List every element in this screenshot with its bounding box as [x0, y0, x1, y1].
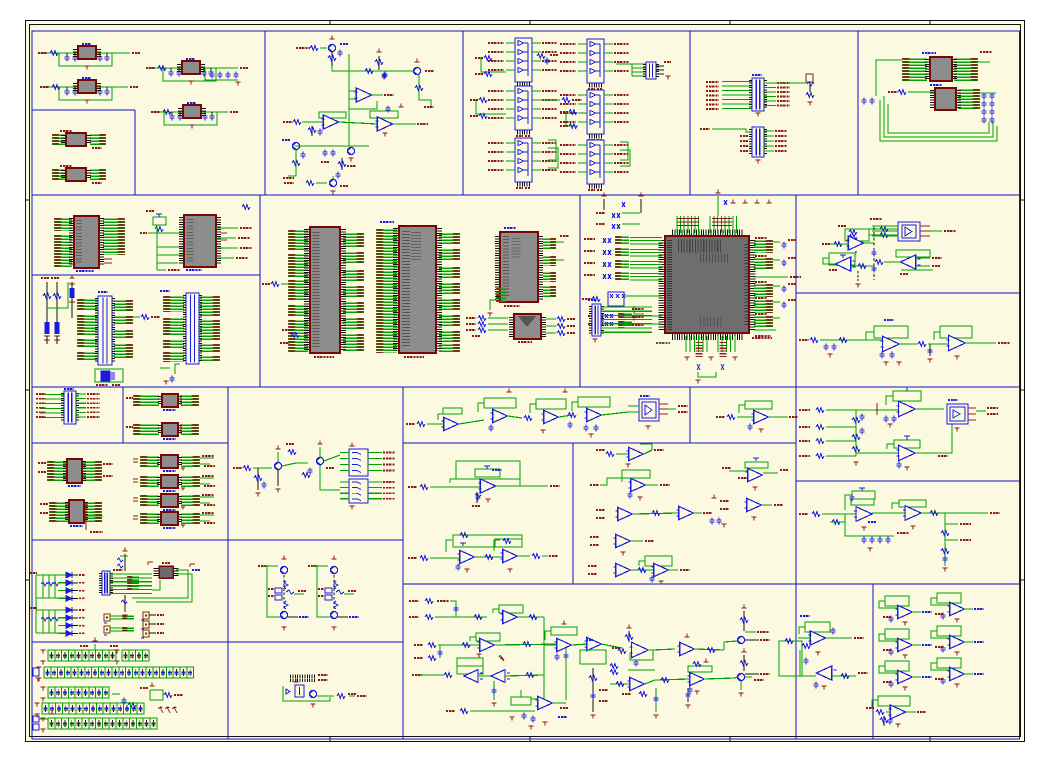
output divider string [941, 513, 971, 571]
lower op-amp V5 cluster [446, 690, 568, 729]
op-amp chain stage2 [478, 389, 522, 432]
comparator U24 [870, 219, 956, 241]
IC U30 [38, 459, 113, 486]
partition line [572, 443, 574, 584]
op-amp V2 [414, 633, 569, 700]
resistor RC net [537, 54, 558, 65]
cap row [845, 530, 909, 551]
input networks [799, 408, 865, 466]
connector J2 [706, 75, 790, 116]
op-amp U27A [852, 320, 918, 365]
output transistor P1 [724, 605, 770, 650]
partition line [796, 480, 1020, 482]
small IC U6 [56, 166, 103, 183]
IC U31 [40, 500, 103, 532]
op-amp pair U46 [588, 556, 690, 584]
partition line [796, 292, 1020, 294]
FPGA U23 body [662, 233, 772, 338]
capacitor bank row2 [33, 667, 194, 681]
op-amp U43 [590, 470, 670, 500]
op-amp U48 [720, 498, 783, 520]
net labels col2 row2 [560, 110, 578, 129]
feedback loop to W2 [779, 639, 802, 676]
op-amp cell W6 [931, 626, 984, 655]
pullup resistor and jumper [776, 74, 814, 105]
crystal Y1 [95, 369, 123, 385]
mixer input nets [409, 599, 487, 620]
gate outputs elbow wires [548, 140, 630, 168]
ground stub [855, 271, 860, 287]
small IC U29 [126, 423, 195, 439]
connector J3 [700, 127, 787, 163]
IC U33 [133, 475, 215, 491]
supervisor U52 [132, 562, 200, 602]
filter chain input [799, 338, 852, 358]
input network [233, 466, 272, 497]
transistor Q6 [274, 444, 308, 492]
resistor divider [375, 49, 387, 80]
partition line [259, 195, 261, 387]
resistor net lower left [280, 330, 299, 343]
feedback network with resistors [838, 226, 898, 241]
regulator circuit U2 [40, 78, 138, 103]
jumper sockets [104, 612, 164, 638]
frame zone tick marks [329, 21, 331, 25]
driver array U36 [340, 443, 395, 476]
net labels with series resistors col1 [475, 56, 506, 77]
quad gate IC U9 [488, 38, 557, 88]
comparator U38 [628, 396, 688, 429]
tall IC U19 [292, 227, 361, 357]
connector J1 [616, 62, 671, 79]
op-amp V8 [610, 625, 675, 675]
partition line [462, 31, 464, 195]
op-amp U47 [722, 458, 788, 490]
op-amp cell W8 [931, 658, 984, 687]
reset RC network [117, 548, 128, 619]
partition line [32, 539, 403, 541]
op-amp V6 [544, 621, 588, 661]
IC U16 with bypass network [888, 85, 976, 110]
op-amp V9 [678, 634, 724, 656]
comparator U50 [947, 400, 998, 431]
IC U15 with bypass network [890, 52, 992, 81]
op-amp U8A [370, 104, 428, 137]
capacitor on rail [383, 72, 388, 79]
capacitor bank row1 [40, 638, 149, 665]
op-amp U7B [283, 112, 377, 136]
op-amp cell W9 [866, 696, 926, 727]
op-amp U42 [596, 444, 664, 467]
dashed net line [872, 227, 877, 280]
tall IC U20 [380, 222, 457, 357]
partition line [872, 584, 874, 739]
op-amp U25B left-facing [823, 253, 874, 271]
RC filter strings [41, 278, 68, 344]
diode protection arrays [30, 572, 85, 636]
IC U21 flash [487, 228, 569, 316]
wire main rail [332, 66, 414, 71]
op-amp V10 [610, 677, 655, 696]
capacitor bank row4 [34, 703, 177, 717]
transistor Q7 [302, 441, 340, 490]
transistor Q4 [321, 147, 355, 162]
op-amp U26 left-facing [875, 250, 942, 274]
connector J6 [36, 389, 100, 424]
op-amp cell W5 [879, 629, 932, 658]
lower rail wire [295, 145, 369, 147]
output transistor P2 [735, 649, 770, 697]
partition line [32, 109, 135, 111]
op-amp cell W4 [931, 593, 984, 622]
transistor Q3 [282, 140, 306, 178]
op-amp U49B [856, 424, 952, 470]
op-amp U7A [349, 88, 394, 113]
IC U34 [133, 494, 215, 510]
bypass capacitors right [980, 93, 996, 124]
partition line [32, 442, 228, 444]
capacitor bank right of regulator U3 [205, 68, 241, 85]
quad gate IC U11 [488, 138, 557, 188]
resistor array RP1 [608, 292, 624, 306]
IC U17 memory [58, 216, 122, 271]
partition line [122, 387, 124, 443]
transistor Q5 stage [284, 176, 348, 194]
IC U35 [133, 512, 215, 528]
input net with resistor [262, 282, 288, 287]
FPGA bottom pins [684, 336, 737, 383]
regulator circuit U4 [151, 103, 238, 128]
small IC U5 [56, 131, 103, 148]
quad gate IC U13 [560, 90, 629, 140]
ground chain right of V7 [589, 668, 608, 718]
partition line [579, 195, 581, 387]
transistor string Q8/Q9 [258, 556, 309, 631]
op-amp V11 [655, 659, 735, 695]
capacitor bank row5 [33, 711, 157, 733]
FPGA left resistor arrays [582, 193, 662, 328]
wire with resistor to label [532, 98, 582, 103]
op-amp pair U41 [408, 533, 558, 573]
FPGA right pad groups [656, 238, 801, 343]
regulator circuit U3 [146, 59, 248, 84]
partition line [32, 386, 1020, 388]
op-amp W2 left-facing [800, 650, 868, 689]
driver array U37 [340, 479, 395, 509]
op-amp chain stage3 [524, 389, 573, 434]
op-amp U51A [799, 488, 876, 530]
capacitor bank row3 [40, 683, 183, 708]
connector J5 [160, 291, 216, 384]
programming header J7 [101, 570, 153, 595]
op-amp V4 left-facing [491, 655, 544, 706]
FPGA top power pins [677, 190, 772, 233]
op-amp cell W3 [879, 596, 932, 625]
net labels with series resistors col1 row2 [470, 98, 506, 119]
small IC U28 [126, 394, 195, 410]
partition line [32, 641, 403, 643]
partition line [227, 387, 229, 739]
partition line [264, 31, 266, 195]
op-amp U27B [918, 326, 1010, 362]
partition line [857, 31, 859, 195]
partition line [134, 110, 136, 195]
partition line [402, 387, 404, 739]
op-amp U51B [872, 500, 1000, 529]
op-amp chain stage4 [568, 397, 628, 437]
IC U32 [133, 455, 215, 471]
op-amp W1 [798, 616, 864, 655]
partition line [689, 387, 691, 443]
op-amp U25A [822, 236, 874, 255]
op-amp V7 with under-loop [580, 637, 622, 664]
resistor R on rail [365, 69, 373, 74]
FPGA left connector fan [588, 300, 652, 342]
quad gate IC U10 [488, 86, 557, 136]
ground drops center [653, 688, 690, 718]
op-amp U44 long link [596, 495, 727, 528]
op-amp cell W7 [879, 661, 932, 690]
partition line [32, 194, 1020, 196]
partition line [403, 442, 796, 444]
quad gate IC U12 [560, 39, 629, 89]
transistor Q1 stage [296, 36, 348, 66]
transistor string Q10/Q11 [308, 556, 359, 631]
op-amp U49A [856, 387, 944, 427]
partition line [689, 31, 691, 195]
op-amp U39 [716, 401, 798, 432]
IC U22 codec [466, 314, 575, 342]
transistor Q2 [413, 59, 434, 107]
input cap string [69, 275, 75, 330]
op-amp chain stage1 [406, 408, 484, 431]
FPGA left mid pads [588, 315, 596, 317]
op-amp U40 with loop [408, 461, 560, 506]
partition line [403, 583, 1020, 585]
op-amp U45 [590, 534, 654, 555]
regulator circuit U1 [38, 44, 140, 69]
vertical net wire [348, 54, 350, 146]
routing loop wires [862, 60, 998, 141]
op-amp V3 left-facing with double loop [412, 658, 491, 682]
connector J4 [81, 292, 160, 365]
partition line [795, 195, 797, 739]
op-amp V1 [493, 605, 544, 700]
relay K1 circuit [283, 675, 367, 707]
quad gate IC U14 [560, 140, 629, 190]
resistor stack [336, 158, 357, 179]
IC U18 memory [140, 205, 252, 270]
partition line [32, 274, 260, 276]
